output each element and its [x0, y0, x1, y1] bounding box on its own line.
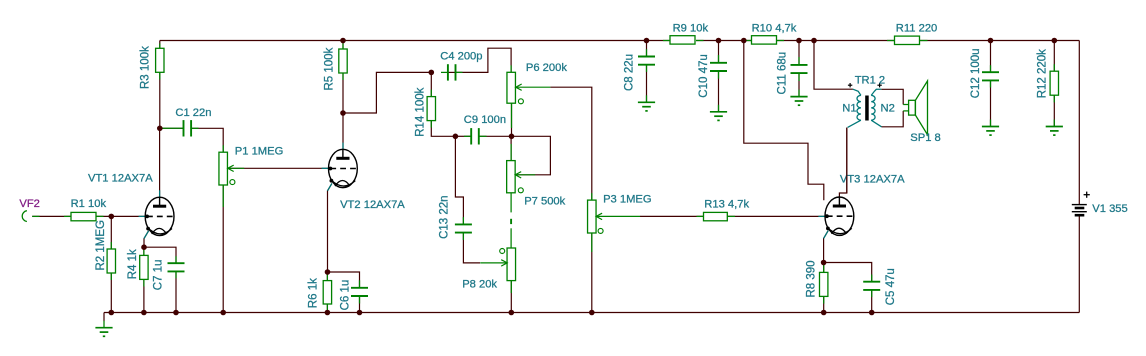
svg-text:N2: N2: [881, 103, 895, 115]
svg-text:R4 1k: R4 1k: [127, 249, 139, 279]
svg-text:C8 22u: C8 22u: [623, 54, 635, 91]
svg-text:P6 200k: P6 200k: [526, 62, 567, 74]
svg-text:R5 100k: R5 100k: [323, 47, 335, 90]
svg-text:C5 47u: C5 47u: [885, 268, 897, 305]
svg-text:R10 4,7k: R10 4,7k: [752, 23, 797, 35]
svg-text:P1 1MEG: P1 1MEG: [235, 146, 283, 158]
svg-text:VF2: VF2: [19, 198, 40, 210]
svg-text:VT3 12AX7A: VT3 12AX7A: [840, 173, 905, 185]
svg-text:VT1 12AX7A: VT1 12AX7A: [88, 172, 153, 184]
svg-text:R13 4,7k: R13 4,7k: [704, 199, 749, 211]
svg-text:R8 390: R8 390: [806, 260, 818, 297]
svg-text:N1: N1: [842, 103, 856, 115]
svg-text:C4 200p: C4 200p: [440, 50, 482, 62]
svg-text:R9 10k: R9 10k: [673, 22, 709, 34]
svg-text:SP1 8: SP1 8: [910, 132, 940, 144]
svg-text:R1 10k: R1 10k: [71, 198, 107, 210]
svg-text:C6 1u: C6 1u: [340, 280, 352, 311]
svg-text:V1 355: V1 355: [1092, 203, 1127, 215]
svg-text:TR1 2: TR1 2: [855, 74, 885, 86]
svg-text:P8 20k: P8 20k: [462, 278, 497, 290]
svg-text:R3 100k: R3 100k: [140, 46, 152, 89]
svg-text:C1 22n: C1 22n: [175, 107, 211, 119]
svg-text:R2 1MEG: R2 1MEG: [95, 220, 107, 271]
svg-text:P3 1MEG: P3 1MEG: [603, 193, 652, 205]
svg-text:R11 220: R11 220: [896, 22, 937, 34]
svg-text:C11 68u: C11 68u: [776, 52, 788, 95]
svg-text:P7 500k: P7 500k: [524, 195, 565, 207]
svg-text:R14 100k: R14 100k: [415, 87, 427, 136]
svg-text:C7 1u: C7 1u: [152, 260, 164, 291]
svg-text:C12 100u: C12 100u: [970, 48, 982, 98]
svg-text:C9 100n: C9 100n: [464, 114, 506, 126]
svg-text:C10 47u: C10 47u: [698, 54, 710, 97]
svg-text:R6 1k: R6 1k: [307, 278, 319, 308]
svg-text:VT2 12AX7A: VT2 12AX7A: [340, 199, 405, 211]
svg-text:R12 220k: R12 220k: [1037, 49, 1049, 98]
svg-text:C13 22n: C13 22n: [438, 195, 450, 238]
